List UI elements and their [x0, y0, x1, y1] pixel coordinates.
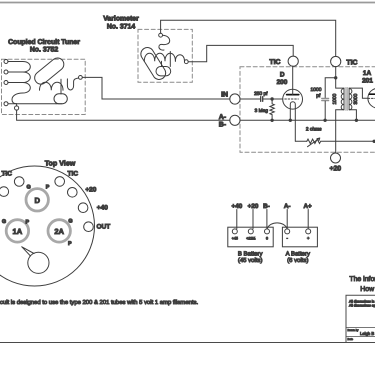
rotor coil outline	[141, 48, 166, 80]
node grid junction	[270, 97, 273, 100]
wire tuner output to IN	[82, 77, 229, 99]
terminal +20	[331, 153, 341, 163]
wire lobe join	[56, 103, 62, 105]
svg-text:P: P	[25, 219, 29, 225]
terminal A minus	[285, 229, 290, 234]
capacitor C1 250 pf	[261, 97, 263, 102]
inductor L2 tuner secondary (variometer style)	[35, 58, 83, 104]
svg-text:2 ohms: 2 ohms	[306, 126, 322, 132]
svg-text:+20: +20	[329, 166, 341, 173]
tube 1A plate	[369, 93, 375, 95]
terminal B +22.5	[248, 229, 253, 234]
tap wire 2	[8, 71, 23, 73]
wire B- to A- bridge	[267, 223, 287, 229]
stator hump stub	[169, 52, 171, 67]
stator humps	[40, 82, 64, 90]
terminal B +45	[232, 229, 237, 234]
svg-text:D: D	[34, 196, 40, 205]
wire IN to grid	[240, 98, 260, 100]
title block divider 2	[346, 336, 375, 338]
svg-text:(45 volts): (45 volts)	[238, 257, 263, 264]
tube 1A envelope	[368, 88, 375, 108]
title block	[346, 295, 375, 342]
svg-text:Leigh B: Leigh B	[360, 331, 374, 336]
svg-text:250 pf: 250 pf	[254, 91, 268, 97]
terminal panel TIC right	[55, 177, 65, 187]
tube D plate lead	[292, 66, 294, 94]
wire TIC2 lead	[335, 67, 337, 78]
svg-text:All dimensions approximate: All dimensions approximate	[349, 304, 375, 308]
transformer T1 secondary	[349, 88, 352, 110]
title block box	[346, 295, 375, 342]
wire coil bottom	[8, 103, 56, 105]
svg-text:+: +	[307, 236, 310, 241]
svg-text:IN: IN	[221, 91, 228, 98]
svg-text:+22½: +22½	[246, 237, 255, 241]
rotor bottom lobe	[54, 94, 67, 104]
svg-text:G: G	[26, 185, 30, 191]
svg-text:3000: 3000	[353, 93, 359, 104]
terminal panel left lower	[0, 187, 9, 197]
tube D plate	[287, 94, 299, 96]
rheostat arrow	[308, 138, 320, 147]
knob pointer	[22, 247, 34, 256]
svg-text:A-: A-	[284, 203, 291, 210]
tap wire 3	[8, 82, 23, 84]
tube D grid	[285, 98, 299, 100]
socket 2A	[48, 220, 70, 242]
battery A box	[282, 227, 317, 247]
border bottom	[0, 342, 375, 344]
terminal A plus	[306, 229, 311, 234]
svg-text:No. 3752: No. 3752	[30, 47, 59, 54]
tube 1A grid	[368, 97, 375, 99]
wire filament to rheostat	[295, 140, 306, 142]
battery section	[228, 203, 318, 264]
svg-text:+45: +45	[232, 237, 238, 241]
rotor lobe stub	[161, 61, 163, 66]
svg-text:The information: The information	[349, 276, 375, 283]
svg-text:D: D	[280, 71, 285, 78]
terminal tuner bottom	[15, 106, 19, 110]
svg-text:TIC: TIC	[68, 171, 79, 178]
rotor curl	[159, 35, 170, 50]
svg-text:G: G	[2, 219, 6, 225]
node resistor bottom	[270, 119, 273, 122]
stator hump stub	[60, 79, 62, 94]
terminal vario top	[159, 33, 163, 37]
svg-text:Coupled Circuit Tuner: Coupled Circuit Tuner	[8, 39, 80, 46]
border top	[0, 2, 375, 4]
svg-text:Drawn by: Drawn by	[348, 329, 360, 332]
node rheostat right end	[373, 140, 375, 143]
svg-text:A+: A+	[303, 203, 312, 210]
svg-text:Top View: Top View	[45, 160, 76, 168]
wire vario right to TIC1	[188, 45, 293, 61]
resistor R1 3 Meg	[270, 99, 274, 120]
svg-text:1A: 1A	[363, 70, 372, 77]
transformer T1 core	[345, 88, 347, 111]
wire vario top to TIC2	[161, 20, 336, 56]
svg-text:A Battery: A Battery	[286, 251, 310, 258]
lead A+	[307, 210, 309, 229]
rotor coil outline	[35, 58, 64, 84]
svg-text:B-: B-	[219, 122, 227, 129]
svg-text:P: P	[46, 185, 50, 191]
svg-text:1000: 1000	[332, 93, 338, 104]
battery B box	[228, 227, 273, 247]
wire tuner bottom stub	[16, 104, 18, 106]
svg-text:cuit is designed to use the ty: cuit is designed to use the type 200 & 2…	[0, 299, 198, 306]
svg-text:B Battery: B Battery	[238, 251, 263, 258]
rotor lower lobe	[156, 67, 171, 76]
terminal panel +20	[68, 188, 78, 198]
node secondary rail	[355, 119, 358, 122]
svg-text:How to: How to	[360, 286, 375, 293]
svg-text:TIC: TIC	[346, 59, 357, 66]
panel circle	[0, 166, 95, 286]
svg-text:+40: +40	[232, 203, 243, 210]
terminal panel TIC left	[14, 177, 24, 187]
inductor L1 tapped primary coil of tuner	[4, 60, 56, 106]
box: variometer (dashed)	[138, 29, 192, 82]
terminal IN	[230, 94, 240, 104]
rail A- B- common	[240, 119, 375, 121]
wire cap to tube	[263, 98, 283, 100]
svg-text:-: -	[286, 236, 288, 241]
wire TIC2 to primary top	[336, 78, 344, 88]
svg-text:TIC: TIC	[269, 59, 280, 66]
svg-text:A-: A-	[219, 114, 227, 121]
rheostat R2 2 ohms	[307, 139, 374, 143]
lead +40	[236, 210, 238, 229]
svg-text:3 Meg: 3 Meg	[255, 108, 269, 114]
terminal ANT3	[4, 81, 8, 85]
svg-text:(6 volts): (6 volts)	[287, 257, 308, 264]
svg-text:G: G	[68, 219, 72, 225]
terminal panel OUT	[84, 222, 94, 232]
transformer T1 primary	[341, 88, 344, 110]
tube D filament	[290, 102, 295, 142]
svg-text:200: 200	[277, 79, 288, 86]
terminal A-/B-	[230, 115, 240, 125]
svg-text:+20: +20	[85, 186, 96, 193]
svg-text:OUT: OUT	[97, 223, 111, 230]
svg-text:1000: 1000	[311, 87, 322, 93]
terminal ANT1	[4, 60, 8, 64]
variometer V1	[141, 33, 188, 79]
terminal tuner output	[79, 76, 83, 80]
svg-text:TIC: TIC	[2, 170, 13, 177]
coil humps	[12, 62, 30, 104]
node TIC2 junction	[334, 76, 337, 79]
lead +20	[252, 210, 254, 229]
socket 1A	[6, 220, 28, 242]
wire secondary bottom to rail	[349, 110, 356, 121]
node cap2 rail	[323, 119, 326, 122]
tap wire 1	[8, 61, 23, 63]
terminal panel +40	[78, 203, 88, 213]
svg-text:No. 3714: No. 3714	[107, 24, 136, 31]
terminal GND	[4, 102, 8, 106]
svg-text:pf: pf	[316, 93, 321, 99]
svg-text:2A: 2A	[54, 227, 64, 236]
node filament left on rail	[289, 119, 292, 122]
svg-text:Variometer: Variometer	[103, 16, 139, 23]
knob rheostat	[28, 252, 49, 273]
svg-text:B-: B-	[263, 203, 270, 210]
svg-text:+20: +20	[248, 203, 259, 210]
svg-text:Date: Date	[348, 338, 354, 341]
tube D envelope	[283, 89, 303, 109]
terminal ANT2	[4, 70, 8, 74]
wire cap2 to rail	[324, 101, 326, 120]
svg-text:201: 201	[362, 78, 373, 85]
svg-text:P: P	[68, 241, 72, 247]
capacitor C2 1000 pf	[322, 99, 329, 101]
lead A-	[286, 210, 288, 229]
terminal TIC1	[288, 56, 298, 66]
svg-text:+40: +40	[97, 205, 108, 212]
svg-text:0: 0	[266, 237, 268, 241]
stator right hump	[175, 55, 184, 62]
wire secondary top to 1A grid	[349, 88, 368, 98]
title block divider 1	[346, 327, 375, 329]
wire bypass branch	[325, 78, 336, 98]
box: main receiver unit (dashed)	[240, 67, 375, 152]
panel top view	[0, 160, 110, 286]
wire primary bottom to +20	[336, 110, 344, 153]
terminal B 0	[265, 229, 270, 234]
terminal vario right	[184, 60, 188, 64]
terminal TIC2	[331, 56, 341, 66]
svg-text:1A: 1A	[13, 227, 23, 236]
stator right humps	[67, 78, 78, 90]
wire tuner bottom to rail	[17, 110, 230, 120]
box: coupled circuit tuner (dashed)	[2, 59, 86, 114]
stator humps	[144, 53, 175, 61]
socket D	[26, 189, 48, 211]
lead B-	[266, 210, 268, 229]
